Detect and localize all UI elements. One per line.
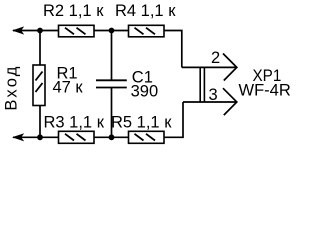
resistor R5 bbox=[129, 131, 165, 143]
svg-text:R3 1,1 к: R3 1,1 к bbox=[44, 114, 105, 132]
pin 2 contact chevron bbox=[223, 54, 237, 81]
resistor R2 bbox=[59, 25, 95, 37]
svg-text:47 к: 47 к bbox=[53, 79, 84, 97]
resistor R4 bbox=[129, 25, 165, 37]
wire pin 2 line bbox=[182, 66, 236, 68]
connector XP1 body (double line) bbox=[200, 67, 204, 102]
svg-text:WF-4R: WF-4R bbox=[239, 82, 291, 100]
pin 3 contact chevron bbox=[223, 88, 237, 115]
svg-text:R5 1,1 к: R5 1,1 к bbox=[111, 114, 172, 132]
input arrow bottom bbox=[12, 133, 24, 141]
wire R3 to R5 bbox=[95, 136, 129, 138]
wire R1 bottom lead bbox=[39, 106, 41, 138]
svg-text:390: 390 bbox=[131, 83, 159, 101]
node junction bottom-left bbox=[37, 134, 43, 140]
wire R4 to corner and down to pin 2 bbox=[164, 31, 182, 68]
wire R2 to R4 bbox=[95, 30, 129, 32]
wire pin 3 line bbox=[183, 101, 236, 103]
svg-text:R2 1,1 к: R2 1,1 к bbox=[43, 2, 104, 20]
wire C1 top lead bbox=[111, 31, 113, 80]
resistor R1 bbox=[33, 65, 45, 106]
svg-text:2: 2 bbox=[211, 49, 220, 67]
node junction bottom-middle bbox=[109, 134, 115, 140]
wire R5 to corner and up to pin 3 bbox=[164, 102, 183, 137]
capacitor C1 bbox=[96, 80, 127, 87]
resistor R3 bbox=[59, 131, 95, 143]
node junction top-middle bbox=[109, 28, 115, 34]
wire R1 top lead bbox=[39, 31, 41, 66]
svg-text:3: 3 bbox=[209, 86, 218, 104]
wire C1 bottom lead bbox=[111, 88, 113, 138]
input arrow top bbox=[12, 26, 24, 34]
wire bottom rail bbox=[13, 136, 59, 138]
node junction top-left bbox=[37, 28, 43, 34]
wire top rail bbox=[13, 30, 59, 32]
svg-text:R4 1,1 к: R4 1,1 к bbox=[115, 2, 176, 20]
